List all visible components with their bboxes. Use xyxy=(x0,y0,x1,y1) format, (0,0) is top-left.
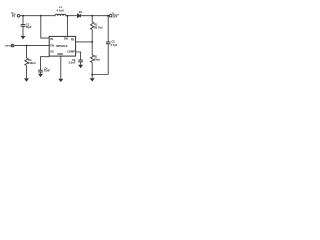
capacitor C4 xyxy=(38,69,43,71)
resistor R1 xyxy=(91,16,93,22)
ground (C3) xyxy=(78,65,83,68)
svg-text:10kΩ: 10kΩ xyxy=(94,57,100,61)
junction bottom rail xyxy=(91,74,93,76)
svg-text:D1: D1 xyxy=(79,10,83,14)
svg-text:EN: EN xyxy=(50,44,54,48)
wire EN xyxy=(14,45,50,47)
svg-text:IN: IN xyxy=(50,37,53,41)
svg-text:ON/OFF: ON/OFF xyxy=(5,46,14,48)
capacitor C2 xyxy=(107,16,109,42)
diode D1 xyxy=(78,14,81,18)
wire SS / C4 branch xyxy=(41,57,50,70)
resistor R4 xyxy=(26,46,28,58)
svg-text:GND: GND xyxy=(57,52,63,56)
op-amp U1 MP3213 box xyxy=(49,36,75,56)
ground (R4) xyxy=(24,78,29,81)
svg-text:FB: FB xyxy=(71,38,75,42)
wire GND pin xyxy=(60,56,62,79)
wire FB xyxy=(76,41,93,43)
svg-text:COMP: COMP xyxy=(67,49,75,53)
wire SW-node to diode xyxy=(66,15,78,17)
wire bottom rail xyxy=(92,74,108,76)
wire VIN rail xyxy=(20,15,55,17)
svg-text:10µF: 10µF xyxy=(26,25,32,29)
wire SW branch xyxy=(66,16,68,37)
svg-text:10nF: 10nF xyxy=(44,69,50,73)
ground (R2) xyxy=(90,78,95,81)
svg-text:4.7µH: 4.7µH xyxy=(57,9,64,13)
resistor R2 xyxy=(91,42,93,55)
capacitor C1 xyxy=(22,16,24,25)
svg-text:2.2nF: 2.2nF xyxy=(69,61,76,65)
junction C1 xyxy=(22,15,24,17)
svg-text:12V: 12V xyxy=(113,14,118,18)
terminal VOUT xyxy=(109,14,112,17)
svg-text:4.7µF: 4.7µF xyxy=(111,43,118,47)
svg-text:SS: SS xyxy=(50,50,54,54)
inductor L1 xyxy=(55,14,66,15)
capacitor C3 xyxy=(78,59,83,61)
ground (GND pin) xyxy=(58,79,63,82)
terminal VIN xyxy=(17,14,20,17)
terminal ON/OFF xyxy=(11,44,14,47)
junction IN branch xyxy=(40,15,42,17)
wire diode to VOUT xyxy=(81,15,110,17)
junction SW xyxy=(66,15,68,17)
svg-text:MP3213: MP3213 xyxy=(56,44,68,48)
svg-text:5V: 5V xyxy=(12,14,15,18)
junction C2 top xyxy=(107,15,109,17)
wire COMP xyxy=(76,52,81,60)
ground (C1) xyxy=(21,36,26,39)
ground (C4) xyxy=(38,74,43,77)
svg-text:100kΩ: 100kΩ xyxy=(28,61,36,65)
wire ground stub R2 xyxy=(91,75,93,79)
junction FB node xyxy=(91,41,93,43)
wire IN branch xyxy=(41,16,49,38)
svg-text:88.7kΩ: 88.7kΩ xyxy=(94,25,102,29)
junction R1 top xyxy=(91,15,93,17)
svg-text:SW: SW xyxy=(64,36,69,40)
junction EN/R4 xyxy=(26,45,28,47)
